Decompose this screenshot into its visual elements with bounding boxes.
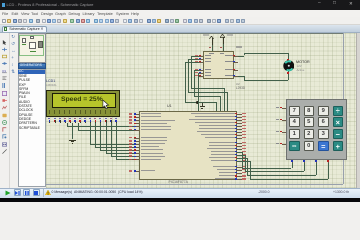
ground symbol near U1 top — [201, 103, 204, 106]
wire LCD D6 to U1 port pin — [110, 123, 113, 157]
sheet border top edge — [46, 32, 344, 35]
U2 right-side pins OUT1 OUT2 OUT3 OUT4 — [234, 55, 238, 58]
title bar — [0, 0, 360, 10]
motor model label — [297, 69, 305, 72]
LCD1 pin name labels (VSS VDD VEE RS RW E D0-D7) — [48, 110, 51, 114]
wire U2 OUT4 to motor bottom — [238, 75, 244, 78]
wire U2 IN1 to U1 — [191, 55, 199, 58]
wire junction to U1 top — [197, 102, 200, 111]
wire LCD D2 to U1 port pin — [89, 123, 92, 144]
wire U2 IN4 to junction line — [198, 72, 200, 75]
LCD1 body — [46, 90, 120, 117]
wire LCD D3 to U1 port pin — [94, 123, 97, 148]
motor driver U2 L293D body — [203, 51, 234, 79]
play button — [5, 190, 11, 196]
wire U2 VS pin to +12V power terminal — [222, 44, 225, 51]
bottom taskbar strip — [0, 198, 360, 202]
sheet border right edge — [342, 33, 345, 184]
right scrollbar — [356, 33, 360, 188]
main toolbar — [0, 17, 360, 25]
message icon — [45, 190, 51, 196]
generators panel header — [18, 63, 46, 70]
keypad keys 4x4 — [289, 106, 300, 116]
U2 top pins VSS VS labels — [209, 53, 214, 54]
wire U2 OUT1 to motor top — [238, 55, 244, 58]
status bar — [0, 188, 360, 199]
+5V power terminal — [211, 38, 214, 45]
U2 value label L293D — [236, 87, 245, 90]
junction dot — [196, 101, 199, 104]
+12V power terminal — [222, 37, 225, 44]
wire LCD RS to U1 RA4 — [66, 123, 69, 127]
U2 reference label — [236, 83, 240, 86]
keypad column pins (bottom) — [291, 160, 294, 164]
motor value 12V — [297, 65, 302, 68]
node stub left of junction — [186, 102, 191, 103]
wire keypad column 1 to U1 port pin — [291, 163, 294, 168]
wire U2 VSS pin to +5V power terminal — [211, 45, 214, 51]
overview minimap — [18, 33, 46, 63]
wire LCD D7 to U1 port pin — [115, 123, 118, 160]
U2 left-side pins IN1 IN2 EN1 IN3 IN4 EN2 — [199, 55, 203, 58]
keypad row pins (left side) — [282, 107, 286, 110]
schematic canvas with grid — [46, 33, 356, 188]
menu bar — [0, 10, 360, 18]
LCD1 pin numbers 1-14 — [48, 118, 50, 120]
microcontroller U1 PIC16F877A body — [139, 111, 237, 180]
sheet border bottom edge — [46, 183, 344, 186]
wire U2 EN1 to U1 with junction — [185, 61, 199, 64]
wire U2 IN3 to U1 — [194, 69, 199, 72]
LCD display LCD1 LM016L — [46, 80, 55, 84]
wire U2 IN2 to U1 — [188, 58, 199, 61]
LCD1 pin stubs with logic-state markers — [48, 120, 51, 123]
mouse cursor — [102, 100, 110, 110]
wire keypad column 4 to U1 port pin — [327, 163, 330, 179]
keypad KEYPAD-SMALLCALC body — [286, 99, 348, 160]
U1 left-side pins (RA0-RA5, RE0-RE2, MCLR, OSC1/OSC2) with pin numbers and stubs — [134, 113, 139, 116]
wire LCD RW to ground — [71, 123, 74, 140]
active tab: Schematic Capture — [2, 26, 47, 33]
ground symbol below LCD — [69, 140, 76, 141]
orientation toolbar — [11, 35, 15, 39]
wire keypad column 3 to U1 port pin — [315, 163, 318, 175]
left mode toolbar — [0, 33, 10, 188]
motor label MOTOR — [296, 61, 310, 65]
U1 reference label — [167, 105, 172, 109]
U1 value label PIC16F877A — [169, 181, 188, 184]
motor symbol — [283, 60, 295, 72]
tab bar — [0, 25, 360, 33]
LCD1 screen showing Speed = 25% — [52, 93, 116, 108]
wire LCD D5 to U1 port pin — [105, 123, 108, 154]
wire LCD D4 to U1 port pin — [99, 123, 102, 151]
wire LCD E to U1 RA5 — [77, 123, 80, 130]
wire keypad column 2 to U1 port pin — [303, 163, 306, 171]
generators list — [18, 69, 46, 187]
U1 right-side pins (port B/C/D) with pin numbers and stubs — [237, 113, 242, 116]
